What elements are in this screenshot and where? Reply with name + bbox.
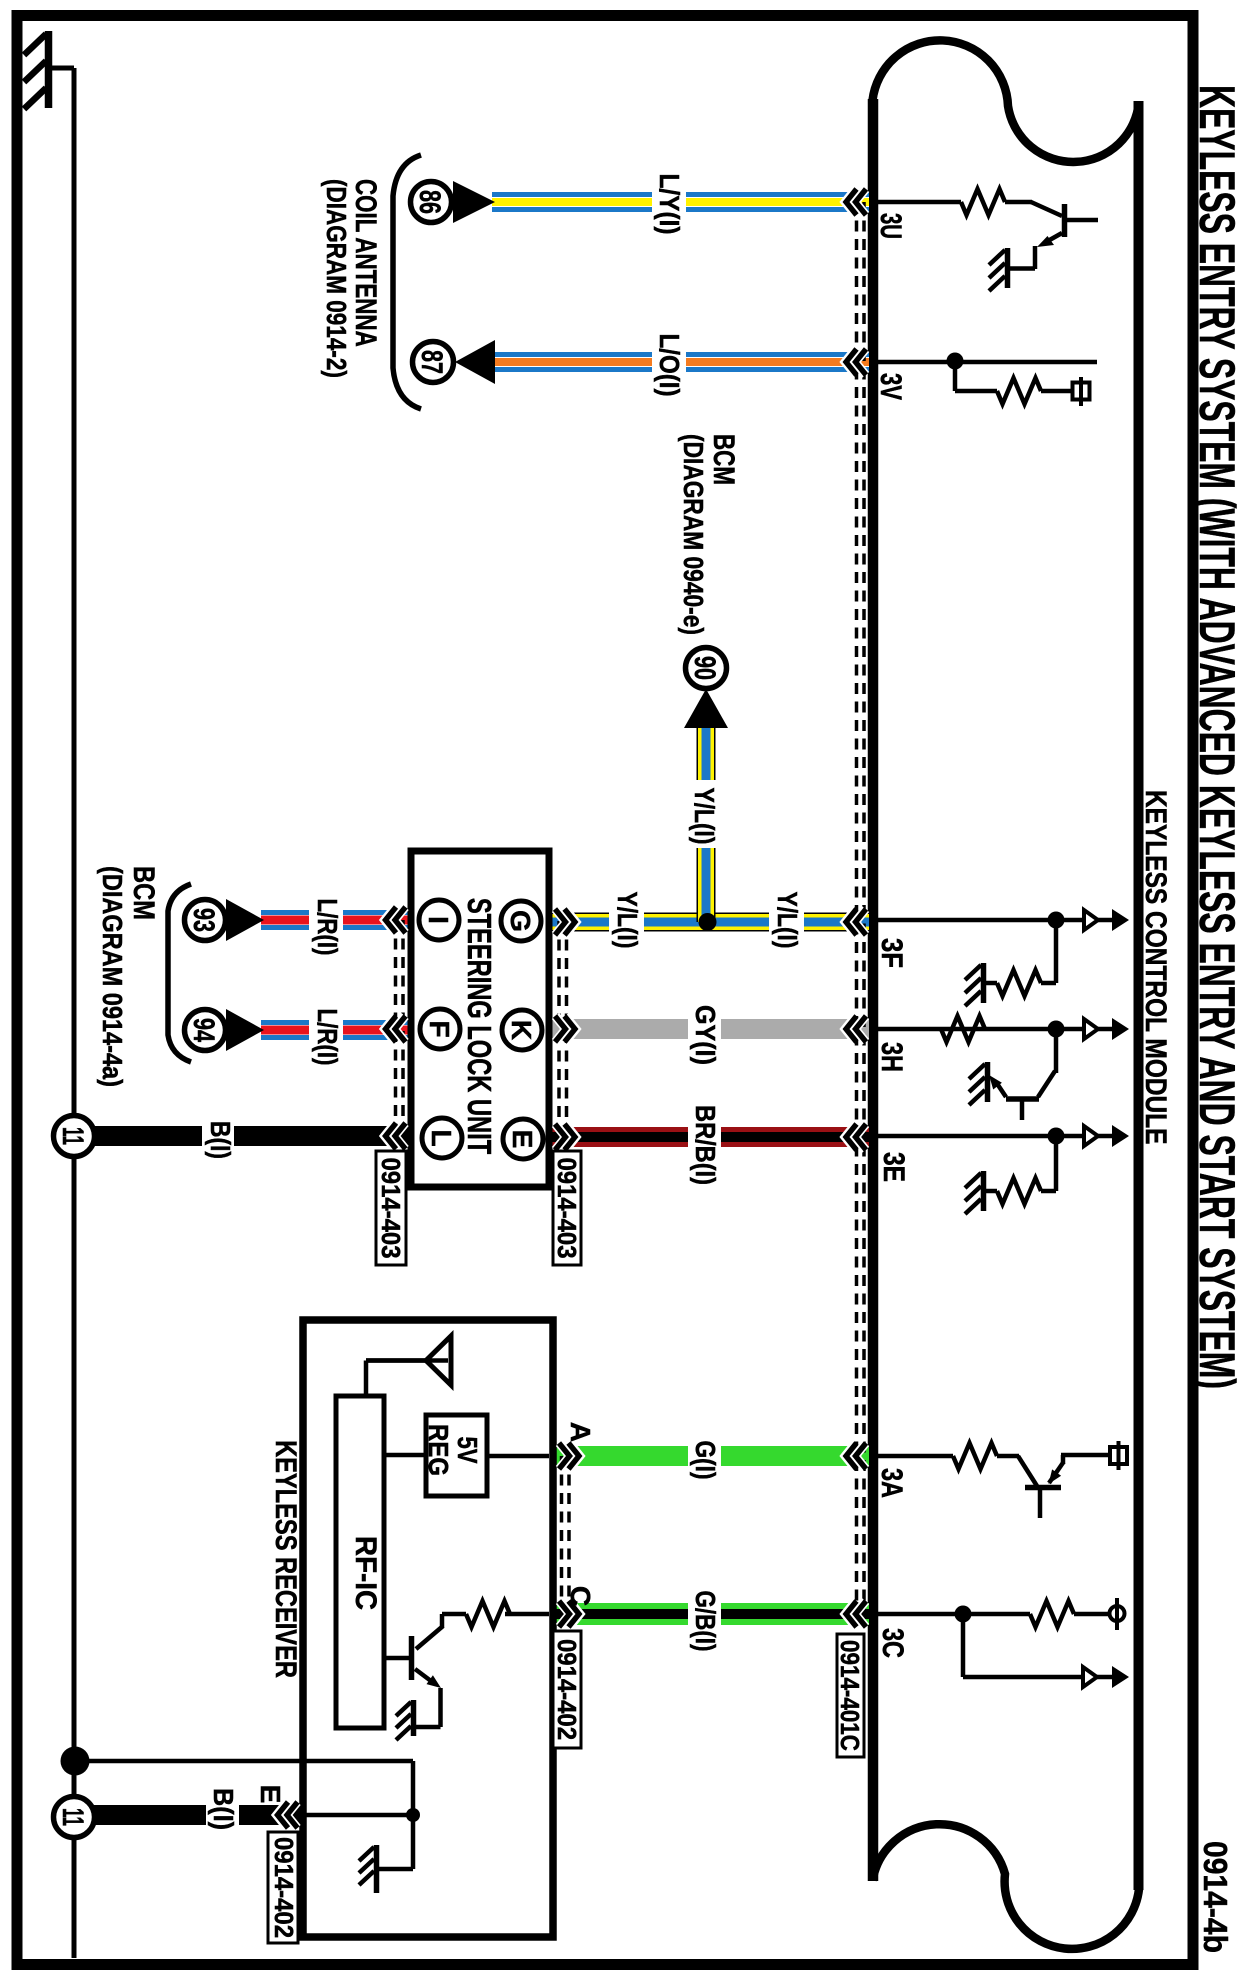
svg-text:3C: 3C [876,1628,909,1658]
svg-text:L/R(I): L/R(I) [311,899,342,956]
svg-text:3V: 3V [874,373,908,400]
svg-text:90: 90 [688,656,722,680]
svg-text:11: 11 [56,1808,89,1826]
svg-text:KEYLESS RECEIVER: KEYLESS RECEIVER [269,1440,302,1678]
svg-text:B(I): B(I) [208,1788,240,1830]
svg-text:KEYLESS ENTRY SYSTEM (WITH ADV: KEYLESS ENTRY SYSTEM (WITH ADVANCED KEYL… [1189,85,1237,1389]
svg-text:Y/L(I): Y/L(I) [688,788,719,845]
svg-text:93: 93 [187,908,221,932]
svg-text:Y/L(I): Y/L(I) [611,892,642,949]
svg-text:3E: 3E [877,1152,911,1182]
svg-text:0914-401C: 0914-401C [835,1640,864,1751]
svg-text:3U: 3U [874,213,907,239]
svg-text:G: G [505,910,536,932]
svg-text:3H: 3H [875,1042,908,1072]
svg-text:(DIAGRAM 0914-2): (DIAGRAM 0914-2) [320,179,351,378]
svg-text:3F: 3F [876,938,909,968]
svg-text:87: 87 [415,350,449,374]
svg-text:94: 94 [187,1018,221,1042]
svg-text:F: F [424,1020,455,1037]
svg-text:KEYLESS CONTROL MODULE: KEYLESS CONTROL MODULE [1139,790,1173,1145]
svg-text:0914-403: 0914-403 [552,1158,581,1259]
svg-text:I: I [423,916,454,924]
svg-text:G/B(I): G/B(I) [689,1590,720,1651]
svg-text:BCM: BCM [707,434,741,485]
svg-text:COIL ANTENNA: COIL ANTENNA [349,179,383,347]
svg-text:(DIAGRAM 0914-4a): (DIAGRAM 0914-4a) [97,866,127,1087]
svg-text:L: L [426,1129,457,1146]
svg-text:0914-403: 0914-403 [376,1158,405,1259]
svg-text:0914-402: 0914-402 [269,1837,298,1938]
svg-text:STEERING LOCK UNIT: STEERING LOCK UNIT [460,898,497,1155]
svg-text:B(I): B(I) [204,1121,235,1159]
svg-text:L/O(I): L/O(I) [654,334,686,397]
svg-text:E: E [507,1130,538,1149]
svg-text:5V: 5V [451,1437,482,1464]
svg-text:K: K [506,1020,537,1040]
svg-text:11: 11 [56,1127,89,1145]
svg-text:RF-IC: RF-IC [349,1536,382,1610]
svg-text:(DIAGRAM 0940-e): (DIAGRAM 0940-e) [677,434,708,635]
svg-text:Y/L(I): Y/L(I) [771,892,802,949]
svg-text:BR/B(I): BR/B(I) [690,1105,720,1185]
svg-text:GY(I): GY(I) [690,1005,722,1065]
svg-text:A: A [565,1422,596,1442]
svg-text:E: E [255,1785,286,1804]
svg-text:C: C [565,1586,596,1606]
svg-text:L/R(I): L/R(I) [311,1009,342,1066]
svg-text:L/Y(I): L/Y(I) [654,174,686,235]
svg-text:0914-4b: 0914-4b [1197,1841,1235,1953]
svg-text:G(I): G(I) [689,1441,720,1480]
svg-text:3A: 3A [875,1468,908,1498]
svg-text:86: 86 [413,190,447,214]
svg-text:REG: REG [423,1424,455,1476]
svg-text:BCM: BCM [127,866,160,920]
svg-text:0914-402: 0914-402 [552,1639,581,1740]
